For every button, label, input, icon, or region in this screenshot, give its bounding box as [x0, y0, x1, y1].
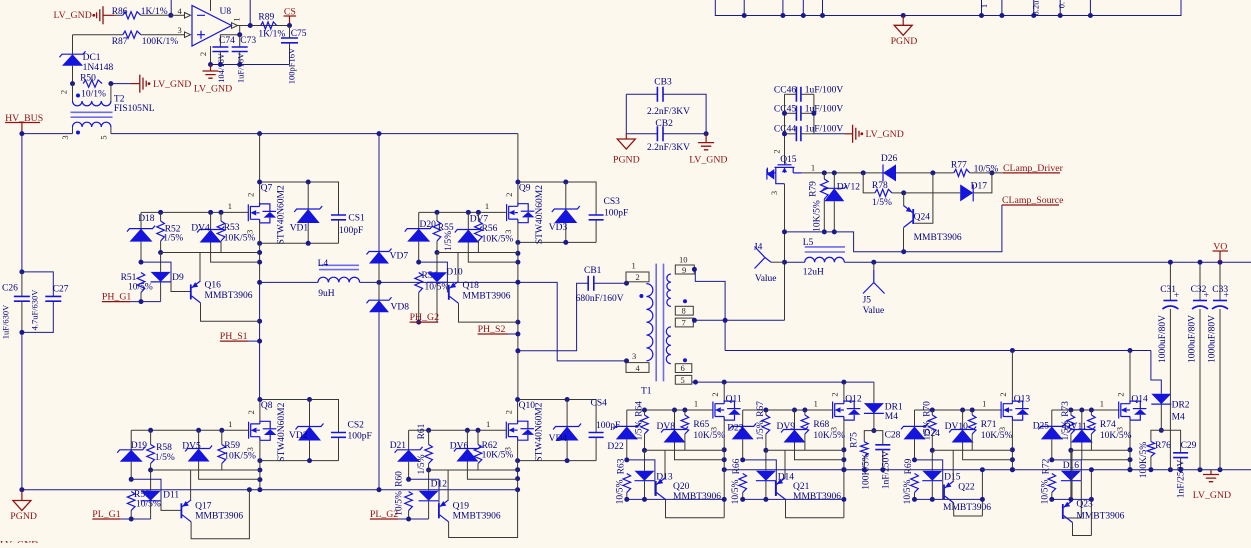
wire gate rail Q11 — [627, 409, 714, 411]
junction — [782, 260, 787, 265]
resistor R86 — [114, 14, 123, 16]
svg-text:Q13: Q13 — [1014, 394, 1031, 404]
svg-text:Q14: Q14 — [1131, 394, 1148, 404]
node HV_BUS — [19, 131, 24, 136]
svg-text:Q11: Q11 — [726, 394, 742, 404]
svg-text:6: 6 — [681, 363, 685, 373]
wire Q16 emitter — [199, 253, 201, 281]
junction — [257, 180, 262, 185]
svg-text:MMBT3906: MMBT3906 — [205, 291, 253, 301]
connector J4 — [755, 247, 772, 269]
pin 2 of U8 down to ground — [210, 46, 212, 65]
junction — [196, 428, 201, 433]
svg-text:2: 2 — [504, 410, 514, 414]
resistor R76 — [1151, 430, 1161, 441]
wire Q20 emitter — [664, 450, 666, 477]
svg-text:C73: C73 — [240, 36, 256, 46]
junction — [642, 448, 647, 453]
connector J5 — [873, 262, 875, 270]
svg-text:L5: L5 — [803, 238, 814, 248]
svg-text:VD2: VD2 — [289, 431, 308, 441]
resistor R79 — [823, 173, 825, 179]
svg-text:10K/5%: 10K/5% — [693, 431, 725, 441]
ground LV_GND (output) — [1210, 470, 1212, 475]
svg-text:J5: J5 — [863, 296, 872, 306]
svg-text:PH_G2: PH_G2 — [410, 312, 439, 323]
diode D13 — [644, 450, 646, 470]
svg-text:2: 2 — [636, 272, 640, 282]
junction Q11 drain — [722, 380, 727, 385]
junction Q13 drain — [1010, 348, 1015, 353]
junction — [722, 467, 727, 472]
svg-text:D15: D15 — [944, 472, 961, 482]
ground PGND (bottom left) — [21, 490, 23, 501]
svg-text:CB1: CB1 — [584, 266, 602, 276]
svg-text:10K/5%: 10K/5% — [482, 235, 514, 245]
svg-text:Q19: Q19 — [453, 501, 470, 511]
resistor R51 — [137, 273, 145, 293]
junction — [802, 408, 807, 413]
node PGND rail — [19, 487, 24, 492]
junction — [930, 448, 935, 453]
junction — [1168, 467, 1173, 472]
junction — [426, 468, 431, 473]
svg-text:MMBT3906: MMBT3906 — [1076, 512, 1124, 522]
svg-text:C27: C27 — [53, 284, 69, 294]
svg-text:DR2: DR2 — [1172, 400, 1190, 410]
zener DV11 — [1081, 410, 1083, 430]
svg-text:2.2nF/3KV: 2.2nF/3KV — [647, 107, 690, 117]
wire Q8 source to PGND bus — [259, 440, 261, 490]
svg-text:VD3: VD3 — [549, 223, 568, 233]
junction — [763, 408, 768, 413]
svg-text:1: 1 — [228, 419, 232, 429]
svg-text:PGND: PGND — [891, 36, 918, 47]
wire D cathode jog to base — [409, 479, 439, 501]
junction — [563, 240, 568, 245]
svg-text:1/5%: 1/5% — [417, 454, 427, 474]
svg-text:DV4: DV4 — [191, 223, 210, 233]
resistor R72 — [1048, 474, 1056, 493]
junction — [979, 13, 984, 18]
svg-text:LV_GND: LV_GND — [689, 155, 727, 166]
capacitor C32 — [1199, 262, 1201, 300]
junction — [466, 210, 471, 215]
wire Q24 collector — [903, 228, 905, 252]
node C73/C74 top junction — [237, 32, 242, 37]
junction — [515, 240, 520, 245]
resistor R70 — [931, 410, 933, 415]
junction Q17 collector riser — [247, 487, 252, 492]
wire (bottom of C74/C73/C75) — [211, 64, 289, 66]
wire VD3/CS3 top — [518, 182, 596, 215]
junction — [1068, 448, 1073, 453]
transistor Q21 — [776, 478, 786, 500]
svg-text:DC1: DC1 — [83, 53, 101, 63]
zener DV6 — [466, 430, 468, 448]
junction VD8 column — [377, 487, 382, 492]
svg-text:LV_GND: LV_GND — [866, 129, 904, 140]
resistor R77 — [954, 169, 970, 176]
svg-text:1/5%: 1/5% — [444, 231, 454, 251]
junction — [682, 408, 687, 413]
svg-text:100pF: 100pF — [604, 209, 628, 219]
body diode Q15 — [767, 169, 774, 180]
capacitor C28 — [874, 431, 883, 445]
capacitor CB2 — [626, 94, 657, 133]
capacitor C73 — [232, 47, 248, 52]
svg-text:R66: R66 — [732, 458, 742, 474]
svg-text:C29: C29 — [1181, 441, 1197, 451]
svg-text:D17: D17 — [971, 182, 988, 192]
transistor Q9 — [507, 203, 535, 223]
resistor R56 — [477, 212, 479, 221]
junction — [565, 458, 570, 463]
svg-text:M4: M4 — [1172, 412, 1185, 422]
junction — [841, 467, 846, 472]
svg-text:3: 3 — [503, 229, 513, 233]
diode D24 — [914, 410, 916, 426]
svg-text:1: 1 — [632, 261, 636, 271]
wire D cathode jog to base — [419, 262, 448, 282]
junction — [1218, 260, 1223, 265]
svg-text:R68: R68 — [813, 420, 829, 430]
inductor L4 — [318, 277, 360, 282]
wire stub — [802, 0, 804, 16]
capacitor C75 — [289, 26, 291, 39]
svg-text:R72: R72 — [1041, 458, 1051, 474]
svg-text:Q9: Q9 — [519, 183, 531, 193]
wire Q22 emitter — [952, 450, 954, 481]
svg-text:10K/5%: 10K/5% — [224, 234, 256, 244]
svg-text:R53: R53 — [224, 223, 240, 233]
wire CC left column — [784, 94, 786, 165]
transistor Q19 — [439, 500, 449, 522]
junction — [257, 477, 262, 482]
svg-text:C26: C26 — [2, 284, 18, 294]
svg-text:3: 3 — [632, 351, 636, 361]
svg-text:3: 3 — [178, 25, 182, 35]
capacitor C27 — [22, 272, 53, 297]
junction — [723, 318, 728, 323]
svg-text:MMBT3906: MMBT3906 — [943, 503, 991, 513]
wire Q7 source — [259, 222, 261, 282]
junction — [742, 13, 747, 18]
transistor Q10 — [506, 420, 534, 440]
junction — [722, 497, 727, 502]
ground LV_GND (R86 minus input) — [97, 6, 103, 24]
junction — [792, 408, 797, 413]
svg-text:5: 5 — [681, 375, 685, 385]
svg-text:VD8: VD8 — [391, 303, 410, 313]
wire phase to L4 — [260, 281, 318, 283]
wire Q20 collector — [666, 500, 725, 518]
svg-text:STW40N60M2: STW40N60M2 — [535, 402, 545, 461]
svg-text:D10: D10 — [446, 267, 463, 277]
wire T1 pin 5 bus — [692, 381, 874, 383]
capacitor CB3 — [626, 93, 657, 95]
wire Q12 drain — [843, 382, 845, 400]
node DC1/R50/T2 — [70, 81, 75, 86]
wire from R87 down to DC1 — [72, 35, 74, 55]
wire Q11 drain — [723, 382, 725, 400]
junction — [218, 62, 223, 67]
svg-text:T1: T1 — [641, 387, 652, 397]
junction CB1 riser — [515, 348, 520, 353]
wire stub — [782, 0, 784, 16]
svg-text:CC46: CC46 — [774, 86, 796, 96]
wire left rail to PGND — [21, 332, 23, 489]
junction PGND end — [515, 487, 520, 492]
resistor R54 — [415, 273, 423, 293]
wire CB1 branch — [518, 283, 588, 351]
diode D21 — [408, 430, 410, 450]
wire Q24 base — [914, 173, 933, 223]
svg-text:10K/5%: 10K/5% — [981, 431, 1013, 441]
junction — [306, 180, 311, 185]
transistor Q17 — [181, 500, 191, 522]
wire emitter rail — [932, 449, 1012, 451]
wire emitter rail — [645, 449, 725, 451]
diode D20 — [418, 212, 420, 228]
svg-text:D22: D22 — [607, 442, 624, 452]
junction — [801, 13, 806, 18]
svg-text:104/16V: 104/16V — [216, 52, 226, 83]
transistor Q20 — [656, 478, 666, 500]
svg-text:1: 1 — [811, 162, 815, 172]
wire low rail — [627, 498, 724, 500]
junction — [208, 210, 213, 215]
zener DV8 — [674, 410, 676, 430]
resistor R68 — [804, 410, 806, 415]
capacitor C29 — [1161, 430, 1180, 453]
svg-text:CS1: CS1 — [348, 214, 365, 224]
junction — [880, 467, 885, 472]
wire HV bus — [22, 133, 73, 135]
wire Q15 source — [784, 184, 786, 321]
svg-text:Q12: Q12 — [845, 394, 862, 404]
junction — [257, 241, 262, 246]
pin 5 supply wire — [210, 0, 212, 11]
svg-text:7: 7 — [682, 318, 686, 328]
wire LV_GND bus — [724, 469, 1251, 471]
junction — [912, 457, 917, 462]
capacitor CC45 — [785, 112, 797, 114]
wire Q12 source — [843, 420, 845, 470]
svg-text:Q10: Q10 — [519, 401, 536, 411]
svg-text:1: 1 — [1100, 399, 1104, 409]
svg-text:DR1: DR1 — [885, 402, 903, 412]
svg-text:2: 2 — [59, 90, 69, 94]
svg-text:D20: D20 — [420, 220, 437, 230]
junction — [1089, 467, 1094, 472]
wire gate rail Q18 — [419, 211, 506, 213]
junction — [901, 249, 906, 254]
inductor L5 — [785, 261, 805, 263]
node T1 pin 3 — [624, 358, 629, 363]
wire gate rail Q17 — [131, 429, 249, 431]
svg-text:Q7: Q7 — [261, 184, 273, 194]
svg-text:C32: C32 — [1191, 285, 1207, 295]
resistor R65 — [684, 410, 686, 415]
resistor R74 — [1090, 410, 1092, 415]
junction — [740, 497, 745, 502]
junction — [406, 477, 411, 482]
svg-text:R60: R60 — [395, 471, 405, 487]
junction — [820, 13, 825, 18]
wire CC right column — [813, 94, 815, 134]
wire output rail VO — [844, 261, 1251, 263]
diode VD3 — [565, 182, 567, 209]
transistor Q24 — [903, 193, 905, 206]
capacitor C33 — [1219, 262, 1221, 300]
junction — [476, 428, 481, 433]
junction — [465, 428, 470, 433]
svg-text:2: 2 — [1116, 392, 1126, 396]
wire VD1/CS1 bottom — [260, 242, 339, 244]
junction — [406, 517, 411, 522]
junction — [1198, 260, 1203, 265]
ground PGND (CB block) — [625, 134, 627, 139]
wire Q22 collector — [954, 503, 983, 516]
svg-text:PH_S1: PH_S1 — [220, 331, 248, 342]
wire Q14 source — [1129, 420, 1131, 470]
zener DV5 — [198, 430, 200, 448]
svg-text:CS4: CS4 — [591, 399, 608, 409]
svg-text:MMBT3906: MMBT3906 — [793, 492, 841, 502]
svg-text:R59: R59 — [224, 441, 240, 451]
svg-text:2: 2 — [504, 192, 514, 196]
junction phase — [515, 280, 520, 285]
junction Q16 collector — [257, 319, 262, 324]
svg-text:MMBT3906: MMBT3906 — [453, 511, 501, 521]
wire Q18 collector — [459, 303, 518, 322]
svg-text:CB2: CB2 — [655, 119, 673, 129]
junction — [862, 467, 867, 472]
wire D cathode jog to base — [131, 479, 161, 501]
svg-text:2: 2 — [710, 392, 720, 396]
junction — [642, 497, 647, 502]
wire VD4/CS4 top — [518, 400, 597, 433]
svg-text:10/5%: 10/5% — [903, 480, 913, 505]
wire emitter rail — [161, 252, 260, 254]
junction — [306, 241, 311, 246]
junction — [219, 428, 224, 433]
wire Q9 source / phase PH_S2 — [517, 222, 519, 400]
svg-text:Q20: Q20 — [673, 482, 690, 492]
resistor R64 — [644, 410, 646, 415]
resistor R62 — [477, 430, 479, 444]
svg-text:3: 3 — [769, 191, 779, 195]
svg-text:PH_G1: PH_G1 — [102, 292, 131, 303]
junction C26/C27 top — [19, 269, 24, 274]
junction — [822, 229, 827, 234]
wire stub — [1033, 0, 1035, 16]
node R50/T2 — [108, 81, 113, 86]
junction — [841, 457, 846, 462]
svg-text:1: 1 — [232, 17, 242, 21]
resistor R52 — [160, 212, 162, 221]
svg-text:MMBT3906: MMBT3906 — [463, 291, 511, 301]
junction — [763, 448, 768, 453]
zener DV10 — [962, 410, 964, 430]
junction PGND bus — [257, 487, 262, 492]
svg-text:R65: R65 — [693, 420, 709, 430]
svg-text:1/5%: 1/5% — [922, 420, 932, 440]
diode VD7 — [369, 252, 389, 264]
junction — [219, 210, 224, 215]
svg-text:C75: C75 — [291, 29, 307, 39]
svg-text:CB3: CB3 — [654, 78, 672, 88]
svg-text:STW40N60M2: STW40N60M2 — [535, 185, 545, 244]
svg-text:100K/1%: 100K/1% — [142, 37, 179, 47]
svg-text:CS2: CS2 — [348, 421, 365, 431]
diode D22 — [626, 410, 628, 426]
junction — [624, 497, 629, 502]
resistor R87 — [73, 34, 123, 36]
transformer T1 — [626, 254, 694, 396]
junction — [129, 517, 134, 522]
svg-text:Value: Value — [755, 274, 777, 284]
junction — [1068, 497, 1073, 502]
junction — [1058, 13, 1063, 18]
feedback node wire — [220, 26, 239, 48]
wire (feedback from top) — [170, 0, 172, 15]
svg-text:R75: R75 — [849, 432, 859, 448]
capacitor CS4 — [589, 433, 604, 438]
svg-text:1K/1%: 1K/1% — [141, 7, 168, 17]
svg-text:LV_GND: LV_GND — [153, 79, 191, 90]
junction — [1031, 13, 1036, 18]
svg-text:R51: R51 — [121, 273, 137, 283]
wire gate rail Q14 — [1052, 409, 1120, 411]
junction — [1079, 408, 1084, 413]
wire emitter rail — [1071, 449, 1130, 451]
svg-text:C28: C28 — [885, 430, 901, 440]
junction — [1168, 260, 1173, 265]
diode D18 — [140, 212, 142, 228]
capacitor CC46 — [785, 93, 797, 95]
wire stub — [1089, 0, 1091, 16]
svg-text:MMBT3906: MMBT3906 — [195, 511, 243, 521]
wire Q17 collector — [191, 490, 249, 539]
svg-text:C33: C33 — [1212, 285, 1228, 295]
junction — [1148, 467, 1153, 472]
junction — [515, 476, 520, 481]
zener DV4 — [210, 212, 212, 229]
svg-text:D21: D21 — [390, 441, 407, 451]
junction — [515, 397, 520, 402]
resistor R66 — [739, 474, 747, 493]
svg-text:R73: R73 — [1061, 401, 1071, 417]
wire Q11 source — [723, 420, 725, 470]
zener DV12 — [833, 173, 835, 188]
junction Q14 drain — [1128, 348, 1133, 353]
svg-text:2: 2 — [198, 52, 208, 56]
svg-text:DV5: DV5 — [182, 441, 201, 451]
ground LV_GND under U8 pin 2 — [210, 65, 212, 72]
junction — [139, 260, 144, 265]
junction — [832, 229, 837, 234]
resistor R67 — [765, 410, 767, 415]
svg-text:R71: R71 — [981, 420, 997, 430]
junction — [782, 229, 787, 234]
svg-text:DV7: DV7 — [470, 215, 489, 225]
svg-text:10/5%: 10/5% — [128, 283, 153, 293]
svg-text:2: 2 — [830, 392, 840, 396]
svg-text:1: 1 — [228, 201, 232, 211]
svg-text:R74: R74 — [1100, 420, 1116, 430]
